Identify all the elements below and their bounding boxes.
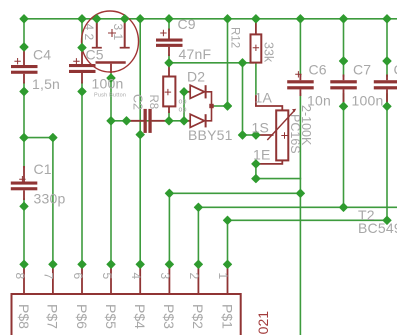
potentiometer pin 1E lead xyxy=(256,160,282,164)
svg-text:Push Button: Push Button xyxy=(94,93,126,99)
wire pin2 net horizontal xyxy=(198,206,397,208)
wire push button stem to pin5 column xyxy=(110,72,112,264)
svg-text:C1: C1 xyxy=(34,161,52,177)
wire C9 R8 column pieces xyxy=(168,19,170,30)
resistor R8 xyxy=(163,63,175,113)
capacitor C4 xyxy=(11,47,38,84)
svg-text:'021: '021 xyxy=(255,311,271,335)
wire pin3 net horizontal xyxy=(169,192,300,194)
svg-text:P$1: P$1 xyxy=(219,304,235,329)
wire 1E net horizontal xyxy=(256,178,301,180)
svg-text:P$4: P$4 xyxy=(132,304,148,329)
wire R12 bottom to pot top xyxy=(255,63,257,96)
wire rail to D2 cathode xyxy=(227,19,229,106)
svg-text:op: op xyxy=(179,99,187,106)
svg-text:1A: 1A xyxy=(255,90,273,106)
wire pin7 column xyxy=(52,138,54,265)
potentiometer pin 1A lead xyxy=(256,95,282,110)
svg-text:P$2: P$2 xyxy=(190,304,206,329)
svg-text:1S: 1S xyxy=(252,120,270,136)
capacitor C9 xyxy=(156,29,183,57)
IC pin stubs xyxy=(24,264,228,294)
D2 common cathode join and pin xyxy=(206,92,214,121)
svg-text:C2: C2 xyxy=(131,94,145,110)
svg-text:C4: C4 xyxy=(33,47,51,63)
svg-text:C7: C7 xyxy=(353,62,371,78)
wire net C9 R8 R12 horizontal xyxy=(169,62,253,64)
wire wiper horizontal green xyxy=(243,134,257,136)
potentiometer pin 1S lead xyxy=(256,134,274,136)
svg-text:100n: 100n xyxy=(352,93,384,109)
svg-text:D2: D2 xyxy=(187,69,205,85)
svg-text:R12: R12 xyxy=(229,27,241,48)
svg-text:100n: 100n xyxy=(92,76,124,92)
wire top supply rail xyxy=(24,18,397,20)
wire C5 top branch xyxy=(81,19,83,48)
wire T branch down to wiper xyxy=(242,63,244,135)
svg-text:R8: R8 xyxy=(147,95,159,110)
svg-text:1E: 1E xyxy=(253,147,271,163)
svg-text:7: 7 xyxy=(42,273,56,280)
svg-text:2: 2 xyxy=(187,273,201,280)
wire pin2 column xyxy=(197,207,199,264)
push button S1 contacts xyxy=(92,16,130,48)
wire D2 anode link xyxy=(183,92,185,121)
svg-text:C6: C6 xyxy=(309,62,327,78)
wire C6 column bottom long xyxy=(299,94,301,335)
wire pin1 column xyxy=(227,220,229,264)
svg-text:P$7: P$7 xyxy=(45,304,61,329)
capacitor C2 xyxy=(127,109,166,133)
svg-text:P$8: P$8 xyxy=(16,304,32,329)
wire C4 bottom to junction xyxy=(23,83,25,138)
svg-text:5: 5 xyxy=(100,273,114,280)
wire pot 1E down link xyxy=(255,164,257,179)
wire pin1 net horizontal xyxy=(228,219,388,221)
svg-text:1: 1 xyxy=(216,273,230,280)
wire C6 column top xyxy=(299,19,301,76)
svg-text:C5: C5 xyxy=(86,47,104,63)
svg-text:op: op xyxy=(179,107,187,114)
wire pin3 column xyxy=(168,193,170,264)
wire horizontal link to pin7 column xyxy=(24,137,53,139)
svg-text:BBY51: BBY51 xyxy=(188,127,233,143)
capacitor C1 xyxy=(11,166,38,200)
resistor R12 xyxy=(251,19,262,63)
wire C7 column xyxy=(343,19,345,76)
diode D2 bottom varactor xyxy=(184,114,206,127)
svg-text:P$6: P$6 xyxy=(74,304,90,329)
wire rail to pin4 column xyxy=(139,19,141,264)
push button moving contact xyxy=(96,63,126,74)
svg-text:P$3: P$3 xyxy=(161,304,177,329)
svg-text:3 1: 3 1 xyxy=(111,24,125,41)
wire C1 top lead green part xyxy=(23,138,25,167)
svg-text:4 2: 4 2 xyxy=(82,24,96,41)
push button origin cross xyxy=(108,29,116,37)
wire C4 top branch xyxy=(23,19,25,47)
diode D2 top varactor xyxy=(184,85,206,98)
wire node C2 horizontal net xyxy=(111,120,190,122)
svg-text:3: 3 xyxy=(158,273,172,280)
capacitor C8 clipped at right edge xyxy=(374,75,397,107)
wire C8 column xyxy=(386,19,388,76)
svg-text:2-100K: 2-100K xyxy=(299,105,313,146)
capacitor C5 xyxy=(69,48,96,84)
svg-text:6: 6 xyxy=(71,273,85,280)
capacitor C6 xyxy=(287,71,314,96)
push button circle outline xyxy=(82,11,139,72)
IC box xyxy=(12,294,241,335)
capacitor C7 xyxy=(330,75,357,107)
svg-text:8: 8 xyxy=(13,273,27,280)
svg-text:330p: 330p xyxy=(34,190,66,206)
svg-text:33k: 33k xyxy=(262,42,276,63)
potentiometer wiper arrow xyxy=(267,109,296,140)
wire D2 cathode stub xyxy=(214,105,228,107)
svg-text:C8: C8 xyxy=(394,62,397,78)
wire C1 bottom to pin8 xyxy=(23,199,25,264)
svg-text:P$5: P$5 xyxy=(103,304,119,329)
svg-text:C9: C9 xyxy=(178,16,196,32)
svg-text:1,5n: 1,5n xyxy=(32,76,60,92)
wire C5 bottom to pin6 column xyxy=(81,83,83,264)
svg-text:BC549: BC549 xyxy=(358,220,397,236)
svg-text:4: 4 xyxy=(129,273,143,280)
rotated labels xyxy=(13,24,313,330)
potentiometer PC16S body xyxy=(276,110,288,160)
svg-text:47nF: 47nF xyxy=(179,46,212,62)
